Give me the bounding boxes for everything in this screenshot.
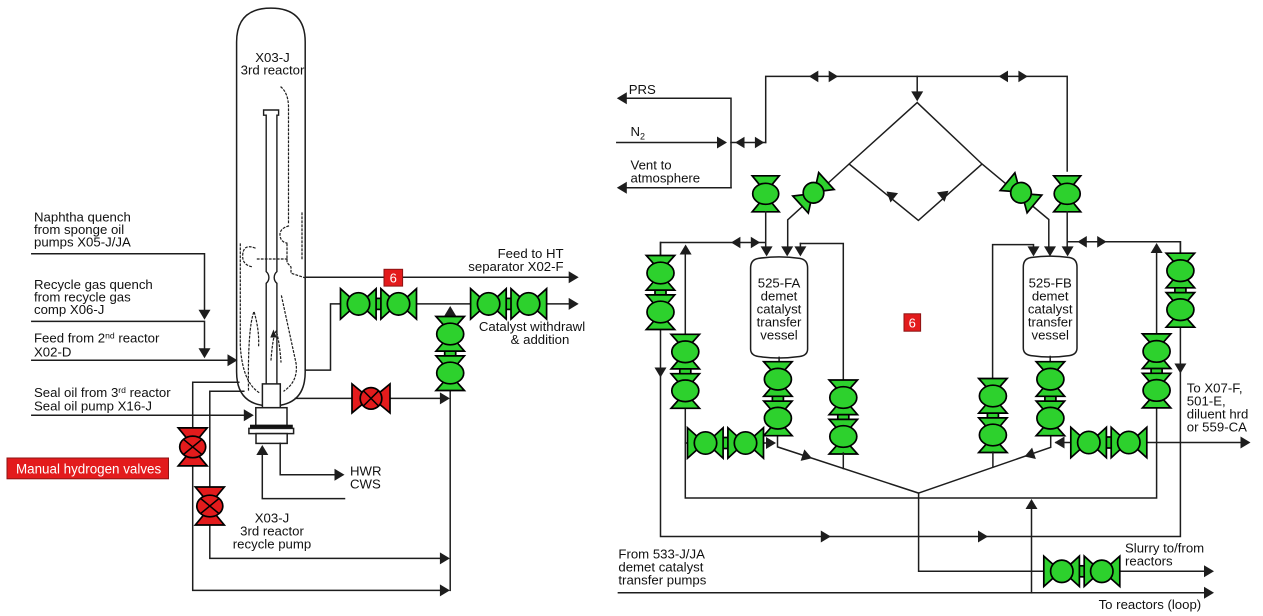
svg-text:Feed from 2nd reactor: Feed from 2nd reactor [34, 331, 160, 346]
from 533 transfer pumps line [618, 592, 1207, 594]
arrow down to diamond [911, 91, 923, 101]
bypass drop to FA top [799, 244, 801, 251]
arrow h2 line2 [440, 552, 450, 564]
valve N2 right vertical [1054, 176, 1081, 212]
catalyst withdrawal line [305, 304, 573, 370]
red seal line [296, 397, 445, 399]
vessel 525-FA [751, 257, 808, 358]
bypass join funnel right [992, 452, 994, 466]
left diagram texts [34, 50, 585, 552]
svg-text:N2: N2 [631, 124, 646, 142]
valve pair left outer [646, 256, 674, 330]
svg-text:To reactors (loop): To reactors (loop) [1099, 597, 1202, 612]
valve pair 2 catalyst line [471, 289, 547, 319]
svg-text:reactors: reactors [1125, 554, 1173, 569]
valve pair FB bottom [1036, 362, 1064, 436]
arrows into FB top [1028, 246, 1040, 256]
FB bottom outlet [919, 357, 1051, 494]
arrows into FA top [761, 246, 773, 256]
HWR CWS line [280, 443, 339, 474]
vessel 525-FB [1023, 256, 1077, 357]
tag 6 box right [904, 314, 921, 331]
vent to atmosphere line [622, 187, 731, 189]
pump suction line [262, 450, 344, 499]
arrow down right outer [1174, 364, 1186, 374]
valve pair left inner [671, 334, 699, 408]
FA bottom outlet [778, 357, 1208, 571]
arrow PRS left [617, 92, 627, 104]
manual hydrogen valves label [7, 458, 169, 479]
double arrow N2 manifold [735, 137, 764, 149]
arrow left into FB outlet [1055, 437, 1065, 449]
arrow riser up [1026, 499, 1038, 509]
arrow catalyst withdrawal [569, 298, 579, 310]
hydrogen line 1 [193, 382, 444, 590]
reactor center tube [264, 110, 279, 384]
double arrow right manifold [1077, 236, 1106, 248]
red manual valve 1 [178, 428, 207, 466]
valve pair FA bottom [764, 362, 792, 436]
svg-text:or 559-CA: or 559-CA [1187, 420, 1247, 435]
arrow red line [440, 392, 450, 404]
left manifold line [661, 212, 766, 255]
arrow up into catalyst line [444, 306, 456, 316]
right transfer line to X07 [1056, 442, 1245, 444]
arrow feed to HT [569, 271, 579, 283]
diamond feeder stub [916, 76, 918, 96]
arrow h2 line1 [440, 584, 450, 596]
svg-text:X02-D: X02-D [34, 345, 71, 360]
svg-text:3rd reactor: 3rd reactor [241, 63, 305, 78]
arrow HWR [335, 469, 345, 481]
red manual valve 2 [195, 487, 224, 525]
pump lower body [256, 434, 287, 444]
double arrow left manifold [731, 237, 760, 249]
valve pair left transfer [688, 428, 764, 458]
reactor bottom pump inlet [262, 384, 280, 408]
vertical drain line with valves [449, 316, 451, 590]
FA bypass line [800, 244, 843, 382]
svg-text:PRS: PRS [629, 82, 656, 97]
arrow down left outer [655, 368, 667, 378]
valve pair right outer [1166, 253, 1194, 327]
pump flange plate [249, 428, 294, 433]
svg-text:6: 6 [390, 271, 397, 286]
valve N2 left vertical [752, 176, 779, 212]
pump flange thick bar [250, 425, 293, 428]
svg-text:vessel: vessel [1032, 328, 1069, 343]
svg-text:Manual hydrogen valves: Manual hydrogen valves [16, 462, 161, 477]
arrow slurry [1204, 565, 1214, 577]
reactor internals dashed [240, 87, 304, 393]
arrow recycle gas down [199, 348, 211, 358]
feed from 2nd reactor line [32, 359, 232, 361]
double arrow top left [809, 71, 838, 83]
valve pair right transfer [1071, 427, 1147, 457]
diamond crossover [788, 103, 1049, 250]
FB bypass valve pair [979, 379, 1007, 453]
right manifold line [1067, 212, 1180, 252]
bypass join funnel left [842, 453, 844, 469]
svg-text:separator X02-F: separator X02-F [468, 259, 563, 274]
arrow up tee left [680, 245, 692, 255]
arrow vent left [617, 182, 627, 194]
valve diamond right tilted [1000, 173, 1042, 213]
left inner drop line [685, 248, 1156, 498]
arrows on bottom transfer line [821, 531, 831, 543]
PRS line [622, 98, 731, 188]
valve diamond left tilted [793, 173, 834, 214]
arrow N2 right [717, 137, 727, 149]
arrow funnel right [1023, 448, 1036, 463]
arrow diamond lower-right [937, 186, 952, 202]
arrow up into pump [256, 445, 268, 455]
svg-text:vessel: vessel [760, 328, 797, 343]
arrow left transfer [766, 437, 776, 449]
svg-text:comp X06-J: comp X06-J [34, 302, 104, 317]
arrow funnel left [801, 449, 814, 464]
reactor X03-J vessel shell [237, 8, 306, 406]
svg-text:pumps X05-J/JA: pumps X05-J/JA [34, 235, 131, 250]
internal flow arrow [270, 330, 276, 338]
recycle gas quench line [32, 321, 205, 354]
FB bypass line [993, 245, 1034, 378]
left outer drop line [661, 242, 1181, 537]
svg-text:atmosphere: atmosphere [631, 171, 701, 186]
arrow feed into vessel [228, 354, 238, 366]
arrow naphtha down [199, 310, 211, 320]
svg-text:Seal oil pump X16-J: Seal oil pump X16-J [34, 399, 152, 414]
valve pair right inner [1142, 334, 1170, 408]
feed to HT separator line [305, 276, 573, 278]
red valve horizontal [352, 384, 390, 413]
tag 6 box left [384, 269, 403, 286]
valve pair 1 catalyst line [341, 289, 417, 319]
top header line [766, 76, 1067, 171]
svg-text:transfer pumps: transfer pumps [618, 573, 706, 588]
arrow diamond lower-left [883, 187, 898, 203]
svg-text:CWS: CWS [350, 477, 381, 492]
recycle pump neck [256, 408, 287, 426]
svg-text:& addition: & addition [511, 332, 570, 347]
left transfer pair line [685, 442, 770, 444]
FA bypass valve pair [829, 380, 857, 454]
right diagram texts [618, 82, 1248, 612]
slurry valve pair [1044, 556, 1120, 586]
svg-text:recycle pump: recycle pump [233, 537, 311, 552]
riser from loop line [1031, 503, 1033, 593]
vertical valve pair drain [436, 317, 464, 391]
double arrow top right [999, 71, 1028, 83]
naphtha quench line [32, 254, 205, 316]
N2 line [617, 142, 766, 144]
arrow up tee right [1151, 243, 1163, 253]
svg-text:6: 6 [909, 316, 916, 331]
seal oil line [32, 414, 248, 416]
arrow to reactors loop [1204, 587, 1214, 599]
arrow seal oil [244, 409, 254, 421]
arrow to X07 [1241, 437, 1251, 449]
hydrogen line 2 [210, 391, 444, 558]
